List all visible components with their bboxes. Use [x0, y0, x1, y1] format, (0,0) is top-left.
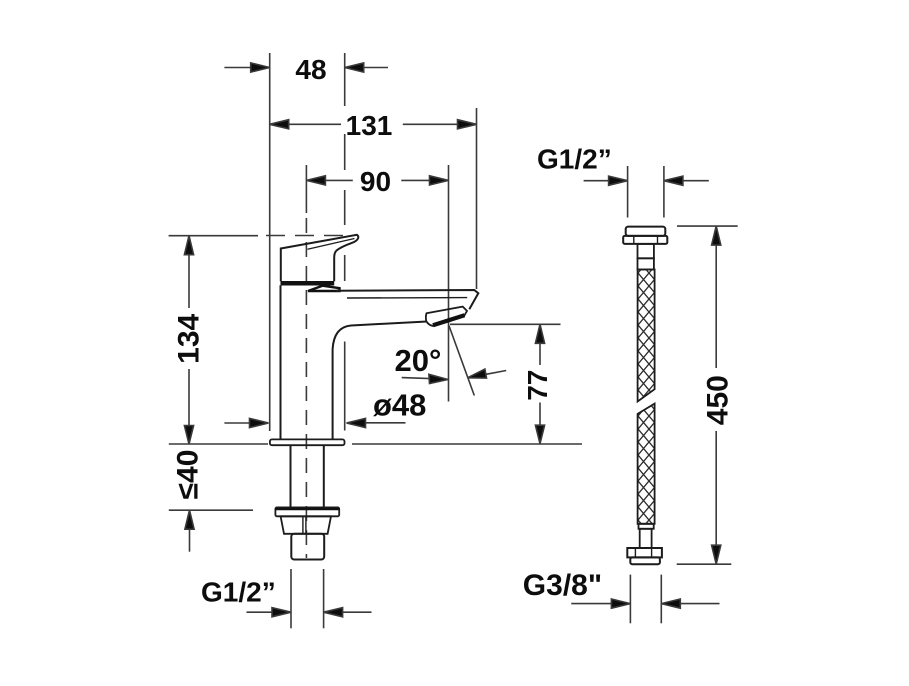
extension line front x=344.7 (solid bottom) [344, 342, 346, 431]
deck reference line right y=444 [352, 443, 582, 445]
reference line 450 top y=226.1 [677, 225, 738, 227]
washer top thick line [275, 508, 339, 511]
hose bottom tube [640, 529, 652, 548]
spout back wedge [308, 286, 340, 291]
svg-text:134: 134 [173, 313, 206, 363]
svg-text:≤40: ≤40 [171, 450, 204, 500]
shank right [323, 445, 325, 507]
spout inner line [347, 297, 467, 299]
G1/2 bottom extension lines [290, 569, 292, 628]
dimension le40 arrows [185, 510, 194, 552]
braided hose upper segment [638, 270, 655, 402]
svg-text:90: 90 [360, 166, 391, 197]
dimension 450 vertical [712, 226, 721, 564]
reference line lever top y=235.7 dashed [266, 235, 352, 237]
body left edge [280, 285, 282, 439]
extension line spout tip x=476.5 [476, 108, 478, 289]
reference line 77 top y=324.3 [450, 323, 561, 325]
G3/8 extension lines [629, 575, 631, 624]
base flange [270, 439, 345, 445]
washer [275, 507, 339, 516]
angle arrows [402, 369, 507, 383]
hose top cap [626, 227, 666, 236]
deck reference line left y=444 [169, 443, 268, 445]
dimension o48 arrows [224, 418, 405, 427]
reference line lever top y=235.7 solid [169, 235, 258, 237]
extension line front x=344.7 (dashed middle) [344, 134, 346, 281]
hose bottom collar [630, 557, 660, 564]
hose neck [638, 244, 654, 258]
dimension 134 vertical [184, 236, 193, 444]
G1/2 top extension lines [627, 166, 629, 218]
reference line 450 bottom y=564.2 [677, 563, 732, 565]
dimension 90 arrows [306, 176, 448, 185]
svg-text:450: 450 [702, 375, 735, 425]
braided hose lower segment [638, 404, 655, 524]
svg-text:48: 48 [295, 54, 326, 85]
hose top nut facets [634, 236, 658, 244]
hose bottom nut [627, 548, 662, 557]
G1/2 top arrows [584, 176, 709, 185]
extension line 90-right x=448.5 [448, 165, 450, 402]
extension line front x=344.7 (solid top) [344, 53, 346, 106]
hose bottom nut facets [635, 548, 651, 557]
svg-text:77: 77 [522, 370, 553, 401]
supply block [291, 534, 324, 560]
G3/8 arrows [571, 599, 719, 608]
lever base bar (thick) [281, 281, 335, 286]
svg-text:131: 131 [346, 110, 393, 141]
lower reference line y=510.2 [169, 509, 253, 511]
svg-text:G1/2”: G1/2” [201, 577, 276, 608]
svg-text:G3/8": G3/8" [523, 569, 602, 602]
spout top [336, 290, 478, 309]
angle line 20 deg [449, 326, 474, 396]
centerline faucet x=306.4 dashed [305, 218, 307, 558]
spout underside + body right edge [333, 322, 427, 440]
hose ferrule bottom [639, 524, 654, 529]
G1/2 bottom arrows [247, 608, 372, 617]
aerator outlet [426, 307, 467, 326]
svg-text:ø48: ø48 [373, 388, 426, 423]
dimension 131 arrows [270, 120, 477, 129]
dimension 77 vertical [535, 324, 544, 443]
extension line back-of-body x=269.7 [269, 53, 271, 431]
dimension 48 arrows [224, 63, 388, 72]
extension line 90-left x=306.4 solid stub [305, 165, 307, 213]
svg-text:G1/2”: G1/2” [537, 144, 612, 175]
lever handle [281, 235, 358, 281]
hex nut [281, 516, 331, 534]
svg-text:20°: 20° [395, 343, 442, 378]
hose ferrule top [638, 258, 654, 269]
aerator bottom thick edge [433, 315, 465, 325]
hex nut facets [303, 516, 306, 534]
shank left [290, 445, 292, 507]
hose top nut [623, 236, 667, 244]
